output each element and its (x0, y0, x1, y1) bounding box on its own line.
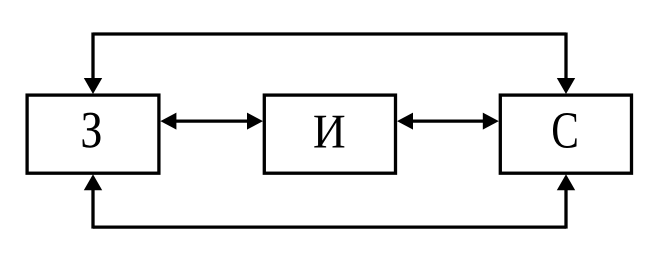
arrowhead right into И (247, 113, 263, 130)
wire double arrow И-С shaft (402, 119, 494, 122)
block И (middle box) (264, 95, 395, 173)
arrowhead up into С (557, 174, 575, 190)
block С (right box) (500, 95, 631, 173)
wire double arrow З-И shaft (166, 119, 258, 122)
wire bottom feedback left vertical (91, 179, 94, 229)
arrowhead left into З (160, 113, 176, 130)
arrowhead down into С (557, 78, 575, 94)
label И (314, 116, 344, 148)
arrowhead down into З (84, 78, 102, 94)
label З (82, 113, 100, 148)
wire top feedback horizontal (93, 32, 566, 35)
wire bottom feedback horizontal (93, 225, 566, 228)
block З (left box) (27, 95, 159, 173)
arrowhead up into З (84, 174, 102, 190)
arrowhead right into С (483, 113, 499, 130)
wire bottom feedback right vertical (564, 179, 567, 229)
wire top feedback right vertical (564, 33, 567, 89)
label С (553, 113, 577, 148)
wire top feedback left vertical (91, 33, 94, 89)
arrowhead left into И (397, 113, 413, 130)
